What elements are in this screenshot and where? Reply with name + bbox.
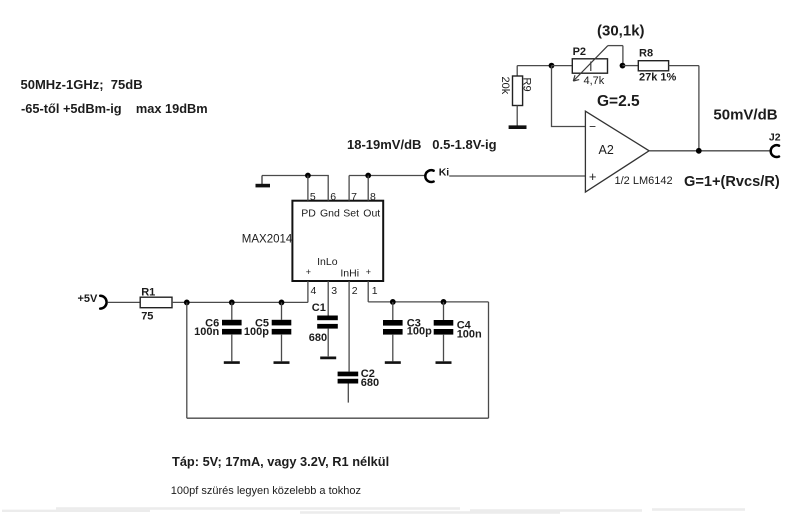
faint scan noise at bottom edge <box>2 509 745 513</box>
svg-text:1/2 LM6142: 1/2 LM6142 <box>615 175 673 187</box>
node: C6 top <box>229 300 235 306</box>
connector Ki <box>425 166 449 182</box>
svg-text:R1: R1 <box>141 287 155 299</box>
svg-text:100p: 100p <box>244 326 269 338</box>
svg-text:5: 5 <box>310 191 316 203</box>
pin stub 6 <box>327 176 329 201</box>
svg-text:J2: J2 <box>769 131 781 143</box>
pin stub 8 <box>367 176 369 201</box>
svg-text:1: 1 <box>372 285 378 297</box>
svg-text:100n: 100n <box>194 326 219 338</box>
svg-text:27k 1%: 27k 1% <box>639 71 677 83</box>
svg-text:Gnd: Gnd <box>320 208 340 220</box>
ground (top-left of MAX2014) <box>256 176 271 186</box>
svg-text:R9: R9 <box>521 78 533 92</box>
svg-text:-65-től +5dBm-ig max 19dBm: -65-től +5dBm-ig max 19dBm <box>21 101 208 116</box>
svg-text:G=1+(Rvcs/R): G=1+(Rvcs/R) <box>684 174 780 190</box>
wire: loop left vertical <box>186 302 188 418</box>
svg-text:75: 75 <box>141 311 153 323</box>
pin stub 7 <box>348 176 350 201</box>
svg-text:InLo: InLo <box>317 256 338 268</box>
capacitor C6 <box>194 302 241 362</box>
svg-text:4,7k: 4,7k <box>584 75 605 87</box>
svg-text:100n: 100n <box>457 329 482 341</box>
wire: Ki to op-amp + input <box>449 175 585 177</box>
svg-text:C1: C1 <box>312 302 326 314</box>
node: loop left corner <box>184 300 190 306</box>
wire: +5V to R1 <box>108 301 141 303</box>
node: C5 top <box>279 300 285 306</box>
node: pin5 junction <box>305 173 311 179</box>
wire: R1 to pin 4 rail <box>172 301 308 303</box>
wire: feedback vertical <box>698 66 700 151</box>
pin stub 3 <box>327 281 329 316</box>
svg-text:+: + <box>306 267 311 277</box>
capacitor C5 <box>244 302 291 362</box>
wire: inverting input from node down and right <box>552 66 586 127</box>
wire: loop right vertical <box>488 302 490 418</box>
node: P2 left junction <box>549 63 555 69</box>
wire: R8 to output node <box>669 65 699 67</box>
svg-text:680: 680 <box>309 332 327 344</box>
pin stub 1 <box>367 281 369 302</box>
wire: junction to P2 <box>552 65 573 67</box>
svg-text:20k: 20k <box>499 77 511 95</box>
node: output junction <box>696 148 702 154</box>
pin stub 4 <box>307 281 309 302</box>
svg-text:P2: P2 <box>573 46 586 58</box>
connector J2 <box>769 131 781 157</box>
svg-text:100p: 100p <box>407 325 432 337</box>
svg-text:(30,1k): (30,1k) <box>597 23 645 40</box>
svg-text:Ki: Ki <box>439 166 450 178</box>
wire: pin1 rail right <box>368 301 488 303</box>
svg-text:G=2.5: G=2.5 <box>597 93 640 110</box>
connector +5V <box>78 293 107 309</box>
wire: pins 7,8 to Ki <box>349 175 425 177</box>
svg-text:50mV/dB: 50mV/dB <box>713 107 777 124</box>
svg-text:7: 7 <box>351 191 357 203</box>
svg-text:Set: Set <box>343 208 359 220</box>
wire: op-amp output <box>649 150 770 152</box>
wire: P2 to R8 <box>623 65 639 67</box>
pin stub 2 <box>348 281 350 372</box>
pin stub 5 <box>307 176 309 201</box>
potentiometer P2 <box>572 46 623 87</box>
svg-text:PD: PD <box>301 208 316 220</box>
capacitor C3 <box>383 302 432 363</box>
svg-text:R8: R8 <box>639 48 653 60</box>
resistor R1 <box>140 297 172 308</box>
wire: gnd rail to pins 5,6 <box>262 175 329 177</box>
svg-text:Out: Out <box>363 208 380 220</box>
ground (below R9) <box>509 125 527 129</box>
svg-text:Táp: 5V; 17mA, vagy 3.2V, R1 n: Táp: 5V; 17mA, vagy 3.2V, R1 nélkül <box>172 454 389 469</box>
svg-text:3: 3 <box>331 285 337 297</box>
capacitor C2 <box>338 368 380 402</box>
capacitor C1 <box>309 302 338 358</box>
svg-text:680: 680 <box>361 377 379 389</box>
svg-text:50MHz-1GHz; 75dB: 50MHz-1GHz; 75dB <box>21 77 143 92</box>
svg-text:18-19mV/dB 0.5-1.8V-ig: 18-19mV/dB 0.5-1.8V-ig <box>347 137 497 152</box>
node: C3 top <box>390 299 396 305</box>
svg-text:+: + <box>589 169 597 184</box>
svg-text:8: 8 <box>370 191 376 203</box>
capacitor C4 <box>434 302 482 363</box>
svg-text:100pf szürés legyen közelebb a: 100pf szürés legyen közelebb a tokhoz <box>171 485 361 497</box>
svg-text:A2: A2 <box>599 143 614 157</box>
node: pin8 junction <box>365 173 371 179</box>
op-amp A2 <box>585 111 672 192</box>
svg-text:−: − <box>589 119 596 133</box>
svg-text:4: 4 <box>311 285 317 297</box>
wire: loop bottom <box>187 417 489 419</box>
wire: R9 top <box>517 65 551 67</box>
svg-text:+5V: +5V <box>78 293 99 305</box>
svg-text:6: 6 <box>330 191 336 203</box>
svg-text:2: 2 <box>352 285 358 297</box>
svg-text:+: + <box>366 267 371 277</box>
node: C4 top <box>441 299 447 305</box>
node: P2 right junction <box>620 63 626 69</box>
svg-text:MAX2014: MAX2014 <box>242 234 293 246</box>
resistor R9 <box>499 66 533 126</box>
resistor R8 <box>638 48 676 84</box>
IC U1 MAX2014 <box>292 201 383 281</box>
svg-text:InHi: InHi <box>340 268 359 280</box>
